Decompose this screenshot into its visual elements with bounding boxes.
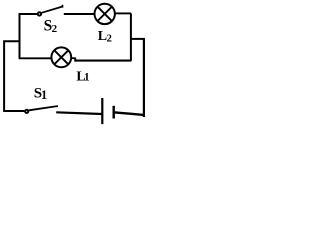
lamp L1 body bbox=[51, 47, 71, 67]
lamp L2 cross bbox=[98, 7, 112, 21]
wire: battery to bottom-right corner bbox=[115, 112, 144, 115]
battery short plate bbox=[112, 106, 114, 119]
switch S2 blade tip bbox=[62, 5, 64, 8]
wire: lamp L2 to top-right corner bbox=[115, 12, 130, 14]
wire: L1 right elbow bbox=[72, 58, 75, 62]
wire: top-left vertical and top rail to switch S2 bbox=[20, 14, 38, 59]
wire: right inner vertical (top rail down to L1 rail) bbox=[130, 13, 132, 61]
battery long plate bbox=[101, 98, 103, 124]
svg-text:2: 2 bbox=[52, 23, 58, 35]
wire: bottom rail from S1 to battery bbox=[56, 112, 101, 114]
lamp L2 body bbox=[95, 4, 115, 24]
switch S2 pivot bbox=[38, 12, 41, 15]
wire: far-right vertical bbox=[143, 39, 145, 117]
wire: top rail between S2 and lamp L2 bbox=[64, 13, 95, 15]
svg-text:1: 1 bbox=[84, 71, 90, 83]
svg-text:2: 2 bbox=[107, 34, 112, 45]
wire: L1 rail right segment bbox=[75, 60, 131, 62]
svg-text:1: 1 bbox=[41, 88, 47, 102]
switch S1 blade bbox=[29, 106, 58, 110]
wire: left outer loop (jog, left vertical, bottom-left segment) bbox=[4, 41, 24, 111]
wire: right jog bbox=[131, 38, 145, 40]
lamp L1 cross bbox=[54, 50, 68, 64]
switch S2 blade bbox=[42, 7, 63, 13]
switch S1 pivot bbox=[25, 110, 28, 113]
wire: L1 rail left segment bbox=[19, 57, 51, 59]
